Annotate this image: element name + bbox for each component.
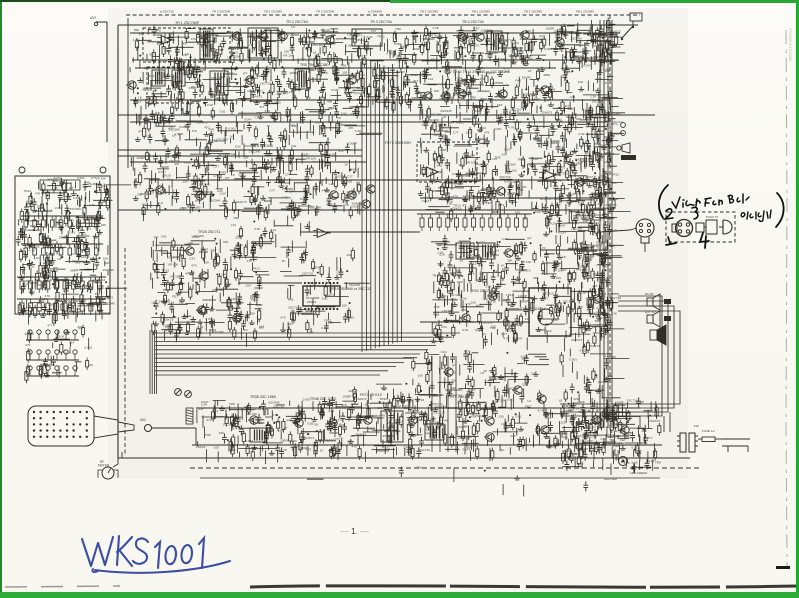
IC1 top pins [304,282,339,284]
resistor [545,215,600,242]
IC1 bottom pins [304,308,339,310]
wire [135,160,343,211]
wire [280,257,370,333]
op-amp U3 [539,170,559,180]
junction [572,415,651,451]
ground [570,403,626,450]
resistor [225,401,557,457]
capacitor [161,242,262,334]
transistor TR11 [519,31,529,39]
junction [567,159,612,206]
wire [547,215,617,244]
IC3 internal circle [538,309,554,325]
wire control bus vertical [379,64,381,347]
wire [149,153,349,209]
wire [406,354,550,407]
resistor [19,180,100,309]
wire [431,239,530,342]
transistor TR6 [244,76,254,84]
trimmer RT1 [175,389,182,396]
wire [184,33,601,75]
wire [151,150,339,213]
ground [587,377,610,393]
wire rail [150,179,606,181]
junction [323,125,326,137]
transistor TR18 [346,191,356,199]
transistor TR2 [257,32,267,40]
wire [574,401,656,473]
transistor TR26 [198,272,208,280]
handwritten WKS1001 W [82,537,113,566]
capacitor [16,178,104,320]
wire control bus horizontal [155,345,436,347]
svg-text:FET7 2SK49: FET7 2SK49 [448,395,469,399]
wire [544,242,607,343]
resistor [570,417,617,464]
resistor [201,68,540,109]
wire [150,153,325,203]
transistor TR3 [277,32,287,40]
capacitor [154,247,260,340]
speaker EXT SP [647,311,660,327]
ground [444,255,522,322]
wire [130,67,531,114]
transistor TR17 [328,191,338,199]
junction [550,230,552,232]
wire [146,72,527,116]
capacitor [43,356,56,368]
svg-text:ANT: ANT [90,16,96,20]
transistor TR44 [590,416,600,424]
capacitor [537,241,610,324]
handwritten parenthesis right [776,193,784,227]
wire [155,108,353,157]
wire bundle [149,330,151,394]
handwritten underline [92,561,230,573]
wire control bus vertical [387,67,389,345]
wire [138,111,307,155]
wire [151,244,272,342]
wire dashed bottom [190,467,700,469]
wire rail [540,249,608,251]
wire [131,151,330,217]
wire rail [196,407,640,409]
svg-text:TR 3 2SC784: TR 3 2SC784 [370,20,392,24]
resistor [179,255,216,292]
resistor [427,104,610,159]
transistor TR30 [460,314,470,322]
svg-text:MIC: MIC [140,418,147,422]
ground [599,252,611,332]
IF transformer T2 [248,28,278,58]
capacitor [167,26,596,67]
wire loop [560,311,680,404]
transistor TR24 [574,178,584,186]
ground [543,215,587,236]
resistor [433,151,601,213]
wire control bus vertical [392,69,394,344]
crystal filter FT1 [352,29,382,46]
label plate [621,155,636,160]
ground [167,29,617,66]
connector CN1 [677,433,686,452]
capacitor [565,397,650,473]
wire main bus top [118,24,638,26]
wire [198,403,589,461]
wire [140,29,611,70]
capacitor [563,22,613,114]
IF transformer T7 [425,424,444,440]
wire [447,356,449,452]
plug J3 [145,425,197,432]
wire [268,401,622,454]
wire [39,181,108,319]
wire loop [560,306,674,408]
capacitor [236,402,598,457]
svg-text:2SC380: 2SC380 [74,299,85,303]
wire right bus [607,20,609,428]
wire [164,69,503,105]
svg-text:TR36 2SC 1965: TR36 2SC 1965 [250,395,276,399]
capacitor [544,251,610,314]
handwritten WKS1001 digit 0b [181,545,192,563]
wire control bus vertical [365,60,367,351]
svg-text:TR 1 2SC784P: TR 1 2SC784P [175,21,200,25]
wire [204,401,582,461]
wire [566,20,623,116]
wire [192,66,522,109]
terminal pads [664,299,671,321]
wire [421,153,613,214]
IF transformer T1 [200,29,213,59]
transistor TR36 [248,416,258,424]
filter L14 [478,243,495,259]
wire to mic connector [600,228,637,232]
wire [27,183,108,288]
wire antenna stub [96,21,107,23]
junction [530,242,607,330]
transistor TR40 [407,416,417,424]
svg-text:L14 L15: L14 L15 [255,407,268,411]
wire [287,253,337,334]
resistor [135,36,528,73]
wire [154,243,269,338]
IF transformer T3 [487,31,502,52]
ground [564,148,614,216]
wire [195,29,611,75]
capacitor [396,395,401,405]
ground [304,224,310,229]
capacitor [547,213,611,236]
wire [283,258,341,328]
transistor TR32 [231,314,241,322]
svg-text:TR25 2SC711: TR25 2SC711 [198,230,221,234]
switch contact row 2 [21,244,103,259]
wire control bus vertical [374,63,376,349]
wire dashed boundary top [126,14,640,16]
wire antenna lead [106,22,108,142]
transistor TR43 [539,426,549,434]
wire [368,75,431,112]
svg-text:IC5 TA-7205P: IC5 TA-7205P [540,197,563,201]
wire [447,37,512,67]
svg-text:TB 3 2SC945: TB 3 2SC945 [420,10,438,14]
svg-text:TOP SW9: TOP SW9 [600,412,616,416]
wire [28,202,96,311]
wire [425,155,598,214]
wire [235,216,309,260]
capacitor [399,467,588,492]
resistor [440,243,523,338]
wire [238,403,603,462]
terminal circle B [100,167,106,173]
wire [550,217,615,249]
resistor [153,63,552,110]
capacitor [148,108,350,153]
resistor [412,349,541,402]
capacitor [564,132,614,230]
wire [141,106,355,154]
wire [133,31,566,73]
svg-text:TR12 TR13 TR14 2SC380 or 2SC7: TR12 TR13 TR14 2SC380 or 2SC710 A 3 [443,70,509,74]
svg-text:100: 100 [416,465,421,469]
wire [207,29,618,69]
wire [152,33,586,71]
wire speaker feed [195,428,197,445]
resistor ladder R-array [417,214,532,231]
wire loop [560,301,668,412]
wire [448,151,603,223]
resistor [434,241,526,344]
wire dashed boundary right [609,15,611,430]
svg-text:FW: FW [694,424,699,428]
wire [218,401,607,462]
junction [437,238,501,337]
wire control bus horizontal [155,357,412,359]
wire [561,24,623,126]
capacitor [152,26,563,66]
resistor [561,403,661,467]
wire rail [118,155,362,157]
ground [431,245,521,343]
IC2 block (dashed) [417,142,477,182]
coil L15 [250,428,266,442]
svg-text:TR 2 2SC945: TR 2 2SC945 [212,10,231,14]
transistor TR41 [484,417,494,425]
wire [567,124,609,245]
wire [432,245,523,343]
connector symbol [617,143,630,153]
resistor [230,69,395,115]
speaker SP1 [28,406,94,446]
label box [40,180,80,190]
plug detail box (dashed) [666,212,735,242]
capacitor [425,154,601,220]
junction [441,105,611,144]
mixer stage (dashed) [147,67,200,103]
wire [601,402,651,430]
connector CN2 [689,433,698,452]
wire rail [192,444,662,446]
wire [565,23,616,114]
wire [421,105,611,158]
resistor [25,325,89,384]
transistor TR31 [591,295,601,303]
junction [139,30,610,62]
wire [35,192,108,315]
wire [138,34,524,73]
resistor [152,27,603,72]
wire bottom rail [120,457,690,459]
handwritten text View From [672,197,700,208]
wire control bus horizontal [155,374,380,376]
handwritten digit 2 [665,209,673,219]
svg-text:TR 2 2SC945: TR 2 2SC945 [316,10,335,14]
svg-text:TB 3 2SC745: TB 3 2SC745 [462,20,484,24]
wire box corner to meter [113,458,118,467]
ground [133,150,347,201]
wire [238,401,628,455]
capacitor [134,151,350,216]
resistor [550,244,586,336]
wire [426,154,620,221]
speaker SP2 [650,325,666,345]
wire [563,349,629,413]
wire control bus horizontal [155,349,428,351]
wire [185,29,620,70]
plug shell [719,220,732,234]
wire [163,150,360,215]
wire [144,156,322,221]
wire [28,189,101,325]
trimmer RT2 [185,391,192,398]
wire [218,401,629,446]
handwritten WKS1001 digit 0a [165,546,176,564]
wire right bus [611,20,613,428]
wire [215,402,647,462]
svg-text:TR 2 2SC784: TR 2 2SC784 [286,20,308,24]
wire [151,242,274,323]
wire rail [130,121,608,123]
svg-text:FUSE 1A: FUSE 1A [702,429,715,433]
svg-text:FB 1 2SC945: FB 1 2SC945 [576,10,594,14]
svg-text:470228014702280: 470228014702280 [788,28,793,62]
capacitor [456,147,590,207]
wire [573,361,625,397]
wire right bus [599,20,601,428]
svg-text:–– 1. ––: –– 1. –– [340,527,369,536]
resistor [34,188,109,319]
coil L1 [152,70,165,86]
resistor [212,401,593,461]
wire [39,180,110,317]
ground [514,475,520,480]
wire [213,400,617,456]
transistor TR4 [324,36,334,44]
wire [180,72,553,111]
wire [439,356,441,452]
resistor [469,105,596,141]
transistor TR39 [362,416,372,424]
wire [148,29,590,71]
capacitor [264,398,615,458]
capacitor [192,66,554,103]
transistor TR20 [495,187,505,195]
junction [405,352,508,392]
ground [153,252,259,335]
ground [241,67,551,106]
ground [475,168,549,213]
IC3 UPC1156H [529,288,571,336]
RF meter M1 [98,467,118,479]
resistor [229,408,613,453]
transistor TR5 [126,81,136,89]
wire control bus horizontal [155,366,396,368]
wire [562,21,624,120]
wire [155,239,269,347]
wire meter to box [118,452,122,458]
resistor [153,235,262,341]
speaker cone [94,416,134,438]
resistor [422,153,611,222]
jack J2 [630,13,642,21]
handwritten WKS1001 K [117,536,132,566]
ground [418,153,605,210]
ground [22,191,105,312]
wire rail [118,149,362,151]
antenna terminal [90,16,98,26]
wire [229,401,632,464]
wire [155,158,319,220]
ground [536,254,603,331]
wire [307,468,524,496]
wire bundle [151,330,153,394]
scan smear bottom [5,586,120,587]
transistor TR11b [554,38,564,46]
svg-text:IC3 UPC115BH: IC3 UPC115BH [520,307,545,311]
wire [197,405,599,462]
ground [280,275,340,332]
transistor TR28 [503,249,513,257]
resistor [145,155,227,202]
junction [455,156,609,214]
capacitor [570,359,613,393]
wire control bus vertical [383,66,385,347]
svg-text:FET2 2SK19GR: FET2 2SK19GR [385,141,411,145]
transistor TR1 [231,32,241,40]
transistor TR21 [360,200,370,208]
transistor TR23 [194,192,204,200]
resistor [143,104,359,154]
wire [136,107,382,146]
svg-text:PA SP: PA SP [645,292,653,296]
capacitor [424,103,611,149]
wire [127,18,129,168]
ground [197,308,203,313]
capacitor [222,396,609,448]
IF transformer T4 [210,71,228,95]
wire [463,151,595,215]
wire [150,72,460,115]
wire [41,331,89,379]
resistor [152,238,261,335]
wire [153,241,263,341]
switch contact row 3 [17,277,106,293]
wire [368,384,437,410]
connector row y332 [26,330,79,340]
transistor TR35 [443,368,453,376]
wire [154,67,550,109]
